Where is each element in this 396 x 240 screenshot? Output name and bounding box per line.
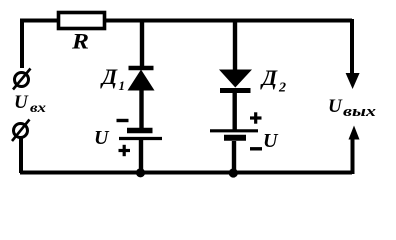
wire left vertical upper (20, 19, 24, 68)
wire D1 to battery1 (139, 89, 143, 130)
label plus (battery right) (250, 112, 262, 123)
wire battery2 to bottom (232, 141, 236, 173)
battery U (right): long positive plate (210, 129, 258, 132)
wire top horizontal (20, 19, 352, 23)
svg-text:R: R (71, 29, 89, 54)
terminal input top (13, 69, 31, 90)
diode Д1 (128, 68, 155, 91)
svg-text:2: 2 (278, 81, 286, 96)
wire D2 to battery2 (232, 88, 236, 131)
wire battery1 to bottom (139, 140, 143, 173)
junction node right (229, 168, 238, 177)
label minus (battery right) (250, 147, 262, 150)
diode Д2 (219, 70, 252, 91)
resistor R (59, 13, 105, 29)
wire left vertical lower (19, 138, 23, 173)
wire bottom horizontal (20, 171, 352, 175)
svg-text:Д: Д (260, 65, 278, 90)
battery U (left): short negative plate (127, 128, 153, 133)
wire right vertical with up arrow (349, 126, 360, 175)
battery U (left): long positive plate (119, 137, 162, 140)
svg-text:1: 1 (119, 78, 126, 93)
svg-text:Д: Д (100, 64, 118, 89)
svg-text:U: U (328, 96, 343, 117)
svg-text:вх: вх (30, 101, 46, 116)
svg-text:U: U (263, 130, 279, 152)
battery U (right): short negative plate (224, 135, 246, 141)
label minus (battery left) (117, 119, 129, 122)
svg-text:U: U (14, 92, 29, 113)
terminal input bottom (12, 120, 30, 142)
label plus (battery left) (119, 145, 131, 156)
svg-text:U: U (94, 127, 110, 149)
svg-text:вых: вых (343, 104, 376, 120)
junction node left (136, 168, 145, 177)
wire right vertical with down arrow (346, 19, 360, 89)
wire branch D2 upper stub (233, 19, 237, 72)
wire branch D1 upper stub (140, 19, 144, 68)
